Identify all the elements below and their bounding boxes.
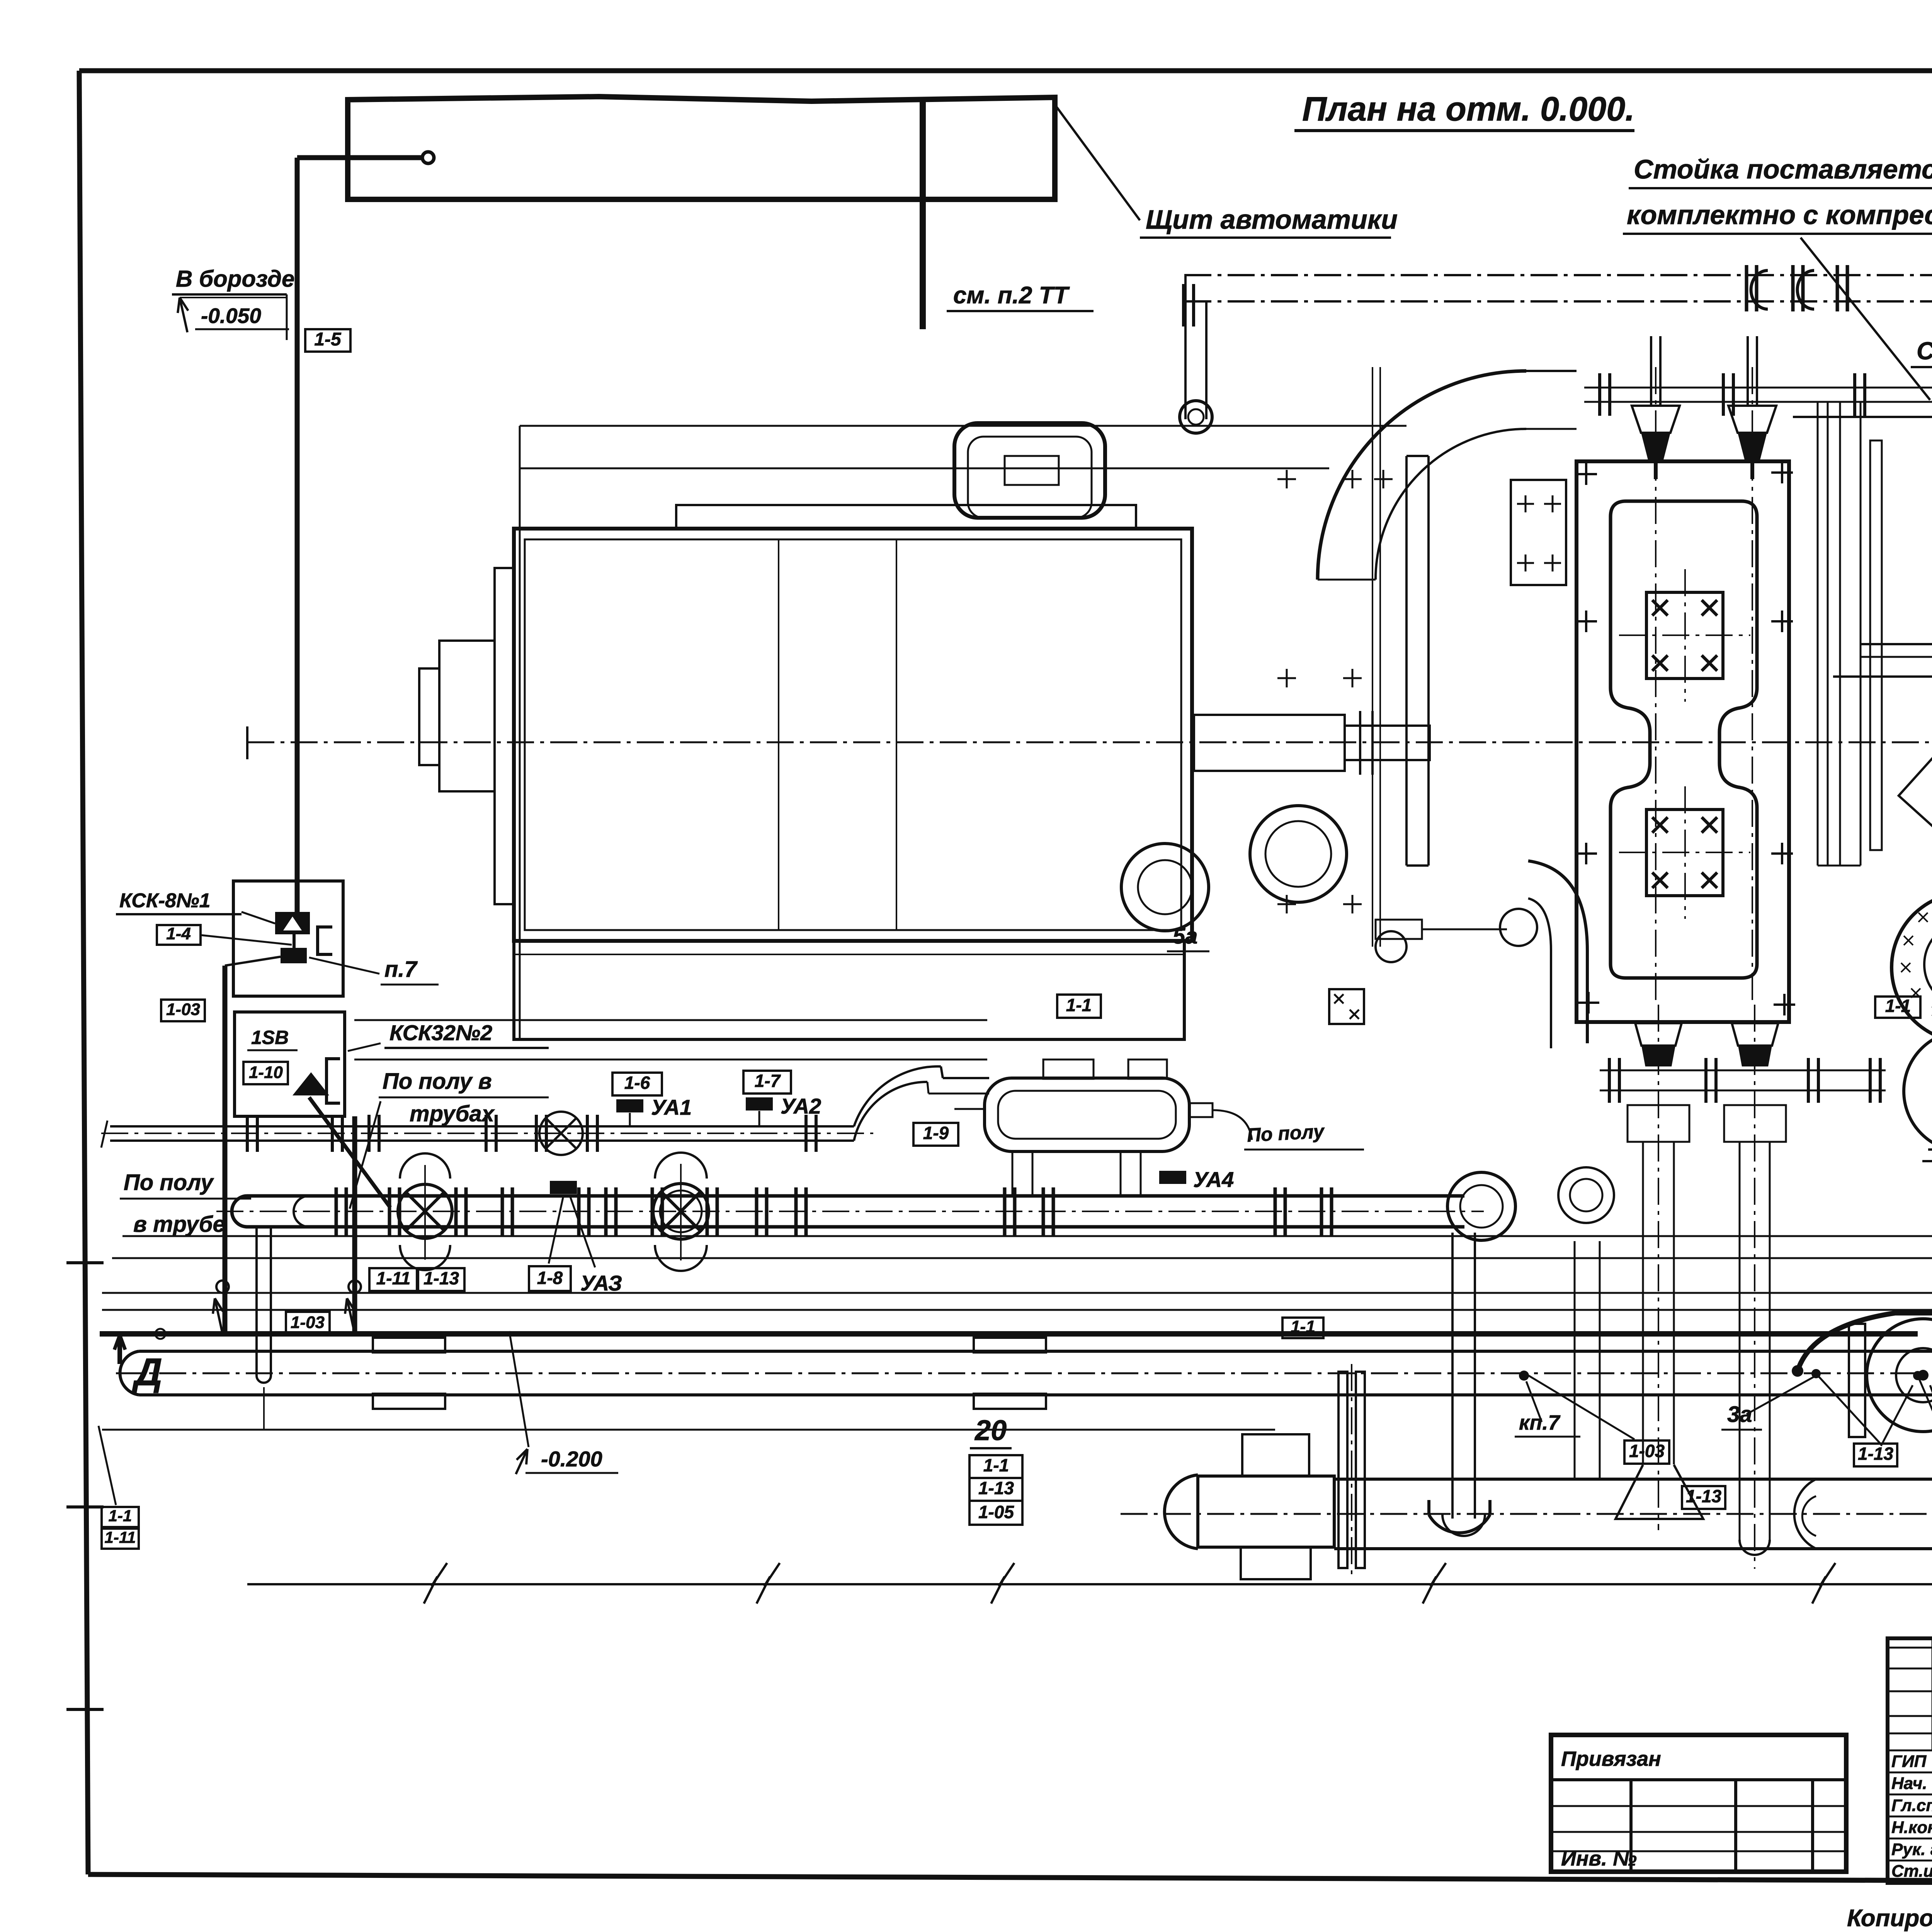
svg-text:1-13: 1-13: [1686, 1486, 1721, 1506]
svg-text:УА2: УА2: [781, 1094, 821, 1118]
svg-text:Н.контр.: Н.контр.: [1891, 1818, 1932, 1837]
svg-text:1-13: 1-13: [423, 1268, 459, 1288]
svg-text:3а: 3а: [1727, 1402, 1752, 1427]
svg-text:1-1: 1-1: [1291, 1317, 1315, 1336]
svg-text:1-9: 1-9: [923, 1123, 949, 1143]
svg-text:1-1: 1-1: [1066, 995, 1092, 1015]
svg-text:1-13: 1-13: [1858, 1444, 1893, 1464]
svg-text:Рук. гр.: Рук. гр.: [1891, 1840, 1932, 1859]
svg-text:КСК32№2: КСК32№2: [389, 1020, 492, 1045]
svg-text:По полу: По полу: [124, 1170, 214, 1195]
svg-text:В борозде: В борозде: [176, 266, 294, 292]
svg-text:-0.200: -0.200: [541, 1447, 602, 1471]
svg-text:п.7: п.7: [384, 957, 418, 982]
svg-text:в трубе: в трубе: [133, 1212, 225, 1237]
svg-text:1-13: 1-13: [978, 1478, 1014, 1498]
svg-text:1-11: 1-11: [376, 1268, 411, 1288]
svg-text:1-11: 1-11: [105, 1528, 136, 1546]
svg-text:1SB: 1SB: [251, 1027, 289, 1048]
svg-text:Ст.инж.: Ст.инж.: [1891, 1862, 1932, 1881]
svg-text:УАЗ: УАЗ: [580, 1271, 622, 1295]
svg-text:План на отм. 0.000.: План на отм. 0.000.: [1302, 90, 1635, 128]
svg-text:1-03: 1-03: [166, 1000, 200, 1019]
svg-text:1-1: 1-1: [109, 1507, 132, 1525]
svg-text:УА1: УА1: [651, 1095, 692, 1119]
svg-text:1-5: 1-5: [314, 329, 342, 350]
svg-text:По полу: По полу: [1247, 1120, 1326, 1146]
svg-text:СП1: СП1: [1917, 337, 1932, 365]
svg-text:1-4: 1-4: [166, 924, 191, 943]
svg-text:Нач. отд: Нач. отд: [1891, 1774, 1932, 1793]
svg-text:Гл.спец.: Гл.спец.: [1891, 1796, 1932, 1815]
svg-text:1-7: 1-7: [755, 1071, 781, 1091]
svg-text:-0.050: -0.050: [201, 304, 261, 328]
svg-text:КСК-8№1: КСК-8№1: [119, 889, 211, 912]
svg-text:1-05: 1-05: [978, 1502, 1014, 1522]
svg-text:1-1: 1-1: [1885, 996, 1911, 1016]
svg-text:комплектно с компрессором: комплектно с компрессором: [1627, 200, 1932, 230]
svg-text:1-8: 1-8: [537, 1268, 563, 1288]
svg-text:20: 20: [974, 1414, 1007, 1446]
svg-text:1-10: 1-10: [249, 1063, 283, 1082]
svg-text:Инв. №: Инв. №: [1561, 1847, 1637, 1870]
svg-text:ГИП: ГИП: [1891, 1752, 1927, 1771]
svg-text:Копировал Генюк: Копировал Генюк: [1847, 1905, 1932, 1932]
svg-text:1-03: 1-03: [1629, 1441, 1665, 1461]
svg-text:УА4: УА4: [1193, 1167, 1234, 1192]
svg-text:Д: Д: [131, 1350, 162, 1394]
svg-text:см. п.2 ТТ: см. п.2 ТТ: [953, 282, 1070, 309]
svg-text:По полу в: По полу в: [383, 1069, 492, 1094]
svg-text:1-6: 1-6: [624, 1073, 650, 1093]
svg-text:1-1: 1-1: [983, 1455, 1009, 1475]
svg-text:1-03: 1-03: [291, 1313, 325, 1332]
svg-text:Стойка поставляется: Стойка поставляется: [1634, 154, 1932, 184]
svg-text:Щит автоматики: Щит автоматики: [1146, 204, 1398, 235]
svg-text:трубах: трубах: [410, 1101, 495, 1126]
svg-text:Привязан: Привязан: [1561, 1747, 1661, 1770]
